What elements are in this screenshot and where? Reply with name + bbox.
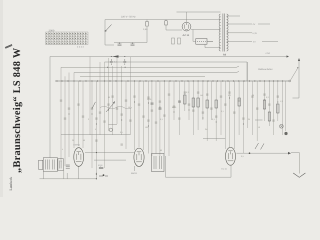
wire grid link under V3 (203, 138, 225, 140)
svg-text:80: 80 (160, 149, 162, 152)
svg-text:6,3V: 6,3V (253, 32, 258, 35)
resistor R3 (197, 98, 199, 107)
svg-text:0,5: 0,5 (241, 155, 244, 158)
coil L2 box (58, 159, 64, 171)
capacitor C3 electrolytic (172, 38, 175, 44)
capacitor C6 on line A (123, 59, 126, 65)
resistor R4 (206, 100, 208, 108)
wire harness left drop link (50, 57, 90, 158)
wire transformer bottom lead (205, 44, 221, 48)
svg-text:EBF11: EBF11 (131, 172, 138, 175)
terminal marks right of rail (99, 175, 108, 177)
resistor R8 (277, 104, 279, 113)
svg-text:4: 4 (62, 148, 63, 151)
capacitor C4 electrolytic (178, 38, 181, 44)
wire V2 grid link (85, 153, 134, 161)
capacitor C1 line filter (118, 43, 122, 46)
wire screen line B (105, 62, 248, 81)
wire mains top rail (105, 19, 221, 21)
resistor R6 (238, 98, 240, 106)
coil L1 windings (46, 160, 55, 170)
IF transformer T3 box (152, 154, 165, 172)
junction dots on AVC line (107, 67, 108, 68)
svg-text:x x x x: x x x x (77, 45, 85, 48)
svg-text:1,2: 1,2 (280, 100, 283, 103)
svg-text:60: 60 (108, 96, 110, 99)
svg-text:100: 100 (145, 126, 148, 129)
wire AVC bottom link (61, 134, 130, 136)
wire speaker feed vertical with arrow (293, 61, 300, 99)
switch contacts slashes (255, 143, 264, 150)
svg-text:0,8A: 0,8A (143, 28, 148, 31)
svg-text:EL 11: EL 11 (222, 168, 228, 171)
choke L10 field coil (196, 39, 207, 45)
fuse F1 (146, 22, 149, 27)
wire main switch bus (55, 80, 289, 82)
table: tube socket voltage chart (46, 32, 89, 45)
wire link under gang (109, 124, 118, 126)
wire lower mains link (114, 27, 147, 43)
svg-text:25: 25 (248, 118, 250, 121)
svg-text:AZ 11: AZ 11 (183, 34, 190, 37)
svg-text:+250: +250 (265, 52, 271, 55)
capacitor C10 coupling (99, 167, 103, 168)
resistor R7 (263, 100, 265, 109)
rectifier tube U4 AZ11 (182, 22, 191, 31)
svg-text:2000: 2000 (49, 29, 55, 32)
capacitor C2 line filter (131, 43, 135, 46)
earth arrow symbol (293, 173, 305, 177)
junction dots on bus (56, 80, 283, 81)
wire AVC line C (61, 66, 239, 67)
wire anode supply line A with arrow (90, 56, 287, 58)
svg-text:0,3: 0,3 (186, 91, 189, 94)
svg-text:5: 5 (95, 128, 96, 131)
capacitor C5 on line A (110, 59, 113, 65)
resistor R2 (192, 98, 194, 107)
svg-text:70: 70 (252, 94, 254, 97)
svg-text:2M: 2M (205, 128, 208, 131)
transformer T1 core (223, 14, 224, 52)
trimmer circle (109, 128, 112, 131)
wire rectifier anode (177, 12, 221, 22)
pilot lamp (280, 124, 284, 128)
wire drops from bus (signal wiring comb) (61, 57, 286, 173)
annotation mark bottom-left (5, 45, 12, 49)
capacitor C9 (178, 101, 181, 102)
wire output link with arrow (237, 152, 289, 154)
tube V2 EBF11 IF-detector (134, 148, 144, 166)
svg-text:0,1: 0,1 (120, 131, 123, 134)
wire mains box left side (105, 20, 114, 45)
svg-text:10: 10 (258, 126, 260, 129)
wire secondary 6.3V lead (227, 32, 252, 34)
capacitor C11 padding (66, 165, 70, 168)
svg-text:Lembeck: Lembeck (9, 177, 13, 191)
svg-text:0,1: 0,1 (160, 118, 163, 121)
transformer T1 primary winding (219, 14, 220, 51)
terminal block antenna (39, 160, 43, 169)
svg-text:0,2: 0,2 (228, 94, 231, 97)
tube V1 ECH11 mixer (74, 148, 84, 167)
coil L1 antenna coil box (43, 158, 57, 172)
variable capacitor arrow (106, 103, 114, 112)
junction dots in wiring field (69, 98, 279, 127)
svg-text:30: 30 (72, 139, 74, 142)
lamp solder blob (284, 132, 287, 135)
svg-text:5000: 5000 (147, 98, 151, 101)
wire tube V1 cathode drop (78, 166, 80, 175)
svg-text:15: 15 (128, 106, 130, 109)
wire rectifier cathode out (191, 29, 221, 31)
capacitor tick marks on wiring (60, 92, 279, 145)
svg-text:„Braunschweig“ LS 848 W: „Braunschweig“ LS 848 W (12, 47, 23, 173)
svg-text:Wellenschalter: Wellenschalter (258, 68, 273, 71)
svg-text:ECH11: ECH11 (74, 143, 81, 146)
svg-text:0,3: 0,3 (266, 96, 269, 99)
wire oscillator link wavy (100, 106, 132, 109)
svg-text:0,1: 0,1 (221, 110, 224, 113)
switch contact at bus end (289, 80, 291, 82)
wire secondary top lead (227, 15, 240, 17)
svg-text:0,1: 0,1 (212, 118, 215, 121)
capacitor C8 IF (159, 108, 162, 109)
wire line D (74, 71, 239, 72)
capacitor C7 IF (151, 103, 154, 104)
resistor R5 (215, 100, 217, 108)
svg-text:220 V~ 50 Hz: 220 V~ 50 Hz (121, 16, 136, 19)
wire to earth corner (291, 153, 299, 174)
resistor R9 (268, 112, 270, 121)
resistor R1 (184, 95, 186, 104)
wire stub right (255, 119, 263, 121)
svg-text:8000: 8000 (172, 106, 176, 109)
wire bottom ground rail left (40, 170, 97, 179)
wire secondary 4V lead (227, 23, 270, 25)
wire V2 drop to rail (134, 166, 136, 171)
switch S1 mains (106, 25, 112, 32)
component value labels (62, 91, 283, 158)
wire secondary heater lead (227, 41, 278, 43)
tuning gang switch stroke (92, 102, 95, 109)
wire bottom rail middle (166, 156, 232, 177)
fuse F2 (165, 21, 168, 25)
tube V3 EL11 output (226, 147, 236, 165)
svg-text:50: 50 (83, 139, 85, 142)
svg-text:2: 2 (88, 118, 89, 121)
symbol volume arrow on line A (113, 55, 119, 58)
junction dot bottom rail (96, 173, 97, 174)
transformer T1 secondary winding (227, 14, 228, 51)
svg-text:1M: 1M (200, 94, 203, 97)
wire line E (80, 75, 205, 77)
